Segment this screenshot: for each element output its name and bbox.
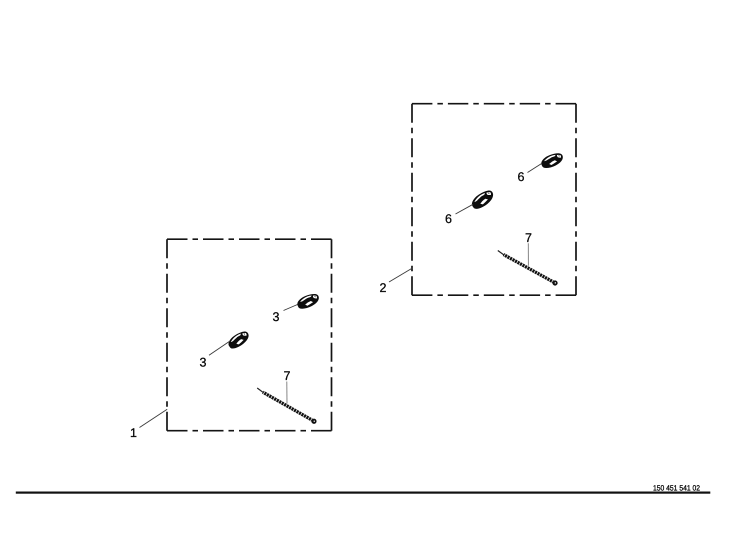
leader line 6 lower (456, 204, 474, 214)
kit box 2 (dash-dot border) (412, 104, 576, 296)
svg-text:7: 7 (284, 369, 291, 383)
kit box 1 (dash-dot border) (167, 239, 332, 431)
svg-text:2: 2 (380, 281, 387, 295)
leader line 2 (389, 268, 413, 282)
svg-text:3: 3 (200, 356, 207, 370)
svg-text:6: 6 (445, 212, 452, 226)
leader line 3 lower (209, 341, 230, 355)
clamp 3 upper (box 1) (296, 292, 321, 310)
leader line 3 upper (284, 305, 298, 311)
svg-text:150 451 541 02: 150 451 541 02 (653, 484, 700, 493)
leader line 1 (140, 409, 168, 427)
leader line 7 (box 1) (286, 382, 288, 404)
clamp 3 lower (box 1) (226, 330, 252, 351)
svg-text:7: 7 (525, 231, 532, 245)
clamp 6 upper (box 2) (540, 152, 565, 170)
cable tie 7 (box 1) (255, 387, 317, 425)
svg-text:6: 6 (518, 170, 525, 184)
clamp 6 lower (box 2) (469, 188, 496, 210)
leader line 6 upper (528, 163, 543, 172)
svg-text:1: 1 (130, 426, 137, 440)
svg-text:3: 3 (273, 310, 280, 324)
leader line 7 (box 2) (527, 243, 529, 265)
bottom rule (16, 492, 711, 494)
cable tie 7 (box 2) (496, 249, 558, 287)
